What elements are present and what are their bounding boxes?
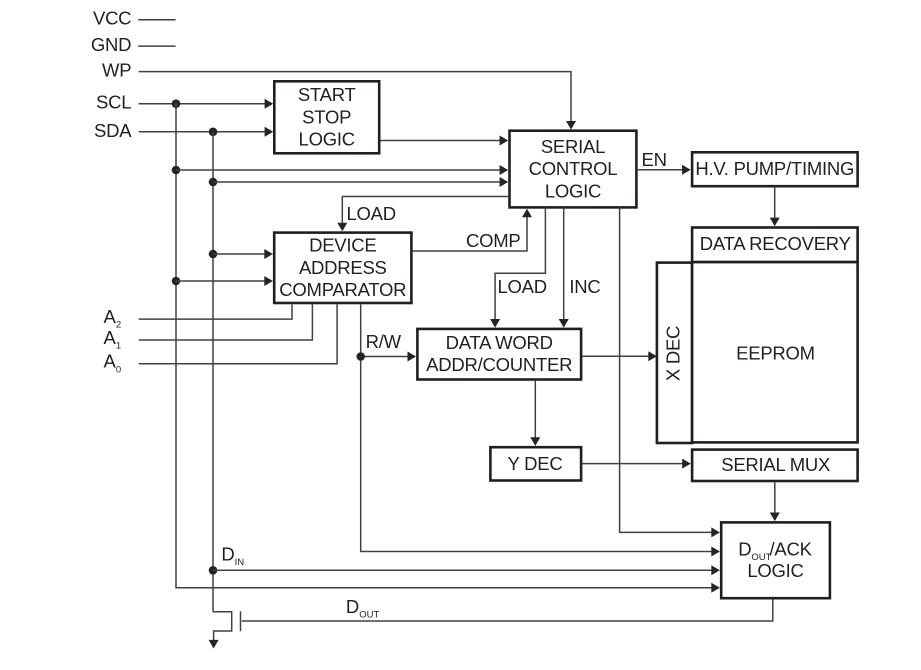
wire COMP from DEVICE ADDRESS COMPARATOR to SERIAL CONTROL LOGIC bottom	[413, 209, 532, 251]
junction SDA-serial branch	[209, 178, 218, 187]
label COMP	[466, 230, 521, 251]
svg-text:SERIAL MUX: SERIAL MUX	[721, 454, 830, 475]
wire LOAD from SERIAL CONTROL LOGIC to DEVICE ADDRESS COMPARATOR top	[337, 197, 508, 232]
junction D_IN	[209, 566, 218, 575]
wire H.V. PUMP/TIMING down to DATA RECOVERY	[770, 186, 780, 226]
wire SDA branch into SERIAL CONTROL LOGIC	[213, 177, 508, 187]
svg-text:LOGIC: LOGIC	[747, 560, 803, 581]
label D_IN	[221, 544, 244, 568]
svg-text:STOP: STOP	[302, 106, 351, 127]
wire DATA WORD ADDR/COUNTER down to Y DEC	[530, 381, 540, 446]
svg-text:H.V. PUMP/TIMING: H.V. PUMP/TIMING	[695, 158, 854, 179]
svg-text:GND: GND	[91, 34, 131, 55]
svg-text:IN: IN	[235, 557, 245, 568]
wire SDA into START STOP LOGIC	[139, 127, 274, 137]
block H.V. PUMP/TIMING	[692, 152, 858, 186]
wire VCC stub	[138, 19, 175, 21]
junction R/W	[356, 352, 365, 361]
label EN	[642, 149, 667, 170]
block DATA RECOVERY	[692, 228, 858, 263]
svg-text:DEVICE: DEVICE	[309, 235, 376, 256]
pin label GND	[91, 34, 131, 55]
junction SCL-serial branch	[172, 166, 181, 175]
svg-text:D: D	[221, 544, 234, 565]
svg-text:2: 2	[116, 320, 121, 331]
wire Y DEC to SERIAL MUX	[582, 459, 690, 469]
wire SERIAL CONTROL LOGIC down to DOUT/ACK input 1	[620, 207, 720, 537]
label D_OUT	[346, 596, 380, 620]
block SERIAL CONTROL LOGIC	[510, 131, 637, 208]
label INC	[569, 276, 600, 297]
svg-text:COMP: COMP	[466, 230, 521, 251]
wire A1 into comparator bottom	[139, 304, 313, 340]
svg-text:1: 1	[116, 341, 121, 352]
svg-text:ADDRESS: ADDRESS	[299, 257, 387, 278]
pin label SDA	[94, 120, 132, 141]
svg-text:EEPROM: EEPROM	[736, 342, 815, 363]
junction SDA	[209, 128, 218, 137]
junction SDA-comparator branch	[209, 250, 218, 259]
svg-text:COMPARATOR: COMPARATOR	[279, 279, 406, 300]
svg-text:D: D	[346, 596, 359, 617]
pin label A0	[104, 351, 122, 376]
svg-text:ADDR/COUNTER: ADDR/COUNTER	[426, 354, 572, 375]
label R/W	[366, 331, 402, 352]
svg-text:CONTROL: CONTROL	[529, 158, 618, 179]
pin label A1	[104, 327, 122, 352]
svg-text:OUT: OUT	[359, 609, 379, 620]
wire A2 into comparator bottom	[139, 304, 292, 319]
block Y DEC	[490, 447, 581, 480]
block DEVICE ADDRESS COMPARATOR	[274, 233, 411, 303]
block EEPROM	[692, 262, 858, 442]
pin label WP	[102, 59, 131, 80]
block DOUT/ACK LOGIC	[721, 522, 830, 598]
svg-text:LOGIC: LOGIC	[545, 180, 601, 201]
svg-text:SDA: SDA	[94, 120, 132, 141]
pin label SCL	[96, 92, 131, 113]
svg-text:SCL: SCL	[96, 92, 131, 113]
svg-text:SERIAL: SERIAL	[541, 136, 605, 157]
label LOAD (comparator)	[347, 203, 396, 224]
svg-text:DATA WORD: DATA WORD	[446, 332, 553, 353]
svg-text:INC: INC	[569, 276, 600, 297]
block DATA WORD ADDR/COUNTER	[417, 329, 581, 380]
svg-text:/ACK: /ACK	[770, 538, 813, 559]
svg-text:LOAD: LOAD	[498, 276, 547, 297]
label LOAD (data word)	[498, 276, 547, 297]
wire DATA WORD ADDR/COUNTER to X DEC	[582, 351, 657, 361]
svg-text:0: 0	[116, 364, 121, 375]
wire DOUT/ACK LOGIC output down-left to MOSFET gate	[242, 600, 773, 622]
wire R/W from comparator bottom to DATA WORD ADDR/COUNTER and down to DOUT/ACK input 2	[361, 304, 720, 556]
wire EN from SERIAL CONTROL LOGIC to H.V. PUMP/TIMING	[636, 165, 690, 175]
svg-text:DATA RECOVERY: DATA RECOVERY	[700, 233, 851, 254]
block SERIAL MUX	[692, 450, 858, 481]
svg-text:X DEC: X DEC	[663, 326, 684, 381]
svg-text:START: START	[298, 84, 356, 105]
wire SCL into START STOP LOGIC	[139, 99, 274, 109]
wire GND stub	[138, 45, 175, 47]
wire SDA branch into DEVICE ADDRESS COMPARATOR	[213, 249, 273, 259]
wire SCL branch into DEVICE ADDRESS COMPARATOR	[176, 276, 273, 286]
wire SCL branch into SERIAL CONTROL LOGIC	[176, 165, 508, 175]
junction SCL-comparator branch	[172, 277, 181, 286]
wire SDA vertical bus down to MOSFET drain	[212, 132, 214, 612]
wire A0 into comparator bottom	[139, 304, 337, 364]
svg-text:LOGIC: LOGIC	[299, 129, 355, 150]
block X DEC	[657, 263, 692, 443]
svg-text:WP: WP	[102, 59, 131, 80]
svg-text:Y DEC: Y DEC	[508, 453, 563, 474]
wire START STOP output into SERIAL CONTROL LOGIC	[381, 136, 509, 146]
wire D_IN to DOUT/ACK input 3	[213, 565, 720, 575]
svg-text:VCC: VCC	[93, 7, 131, 28]
wire SERIAL MUX down to DOUT/ACK LOGIC	[770, 482, 780, 521]
pin label VCC	[93, 7, 131, 28]
wire WP to SERIAL CONTROL LOGIC top	[139, 72, 576, 130]
svg-text:A: A	[104, 351, 117, 372]
block START STOP LOGIC	[274, 81, 379, 153]
svg-text:R/W: R/W	[366, 331, 402, 352]
transistor output MOSFET	[209, 611, 241, 648]
junction SCL	[172, 99, 181, 108]
svg-text:A: A	[104, 306, 117, 327]
svg-text:LOAD: LOAD	[347, 203, 396, 224]
svg-text:D: D	[738, 538, 751, 559]
pin label A2	[104, 306, 122, 331]
wire INC from SERIAL CONTROL LOGIC to DATA WORD ADDR/COUNTER top	[559, 207, 569, 327]
wire LOAD from SERIAL CONTROL LOGIC to DATA WORD ADDR/COUNTER top	[490, 207, 545, 327]
wire SCL vertical bus down to DOUT/ACK input 4	[176, 104, 720, 593]
svg-text:A: A	[104, 327, 117, 348]
svg-text:EN: EN	[642, 149, 667, 170]
